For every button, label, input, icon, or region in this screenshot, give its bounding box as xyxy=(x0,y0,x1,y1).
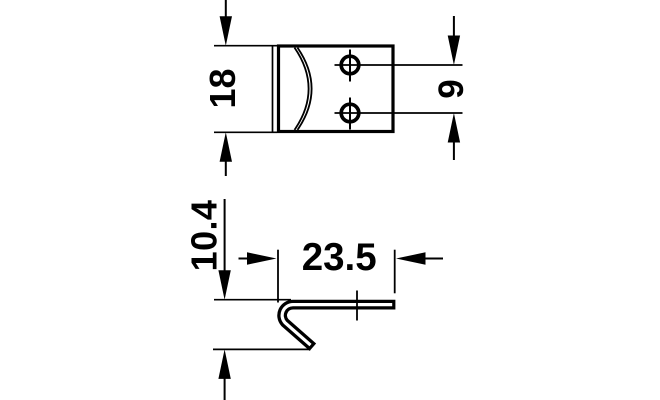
dim 9 line upper shaft xyxy=(453,16,455,38)
dim 9 arrow up xyxy=(448,113,460,143)
top view: bend outer edge thin line xyxy=(272,46,274,133)
dim 23.5 right tail xyxy=(424,258,443,260)
dim 18 arrow up xyxy=(220,132,232,162)
dim 10.4 upper shaft xyxy=(224,199,226,273)
dim 23.5 extension line left xyxy=(277,250,279,303)
dim 23.5 left tail xyxy=(239,258,250,260)
dim 23.5 extension line right xyxy=(394,250,396,294)
dim 18 line lower shaft xyxy=(225,160,227,177)
svg-text:23.5: 23.5 xyxy=(302,236,377,279)
dim 10.4 extension line top xyxy=(214,299,291,301)
dim 23.5 arrow left xyxy=(396,252,426,264)
hole H2 circle xyxy=(341,104,359,122)
dim 9 arrow down xyxy=(448,36,460,66)
svg-text:18: 18 xyxy=(202,68,243,108)
dim 10.4 extension line bottom xyxy=(213,348,311,350)
hole H1 circle xyxy=(341,56,359,74)
dim 10.4 arrow up xyxy=(218,349,230,379)
dim 9 line lower shaft xyxy=(453,140,455,160)
top view: plate outline rectangle xyxy=(279,46,394,132)
hole H2 crosshair vertical xyxy=(349,98,351,130)
dim 10.4 lower shaft xyxy=(224,377,226,400)
hole H1 crosshair vertical xyxy=(349,50,351,82)
svg-text:10.4: 10.4 xyxy=(184,200,225,272)
dim 23.5 arrow right xyxy=(247,252,277,264)
hole H1 center line horizontal xyxy=(335,64,463,66)
dim 18 arrow down xyxy=(220,16,232,46)
hole H2 center line horizontal xyxy=(335,112,463,114)
top view: bend tangent arc inner xyxy=(298,48,312,130)
dim 10.4 arrow down xyxy=(218,270,230,300)
side view sheet interior (white) xyxy=(282,305,392,346)
svg-text:9: 9 xyxy=(432,79,471,98)
dim 18 extension line bottom xyxy=(214,131,277,133)
dim 18 line upper shaft xyxy=(225,0,227,19)
top view: bend tangent arc outer xyxy=(295,48,309,130)
side view sheet body (black) xyxy=(282,305,395,348)
side view hole center line xyxy=(356,291,358,321)
dim 18 extension line top xyxy=(214,45,277,47)
